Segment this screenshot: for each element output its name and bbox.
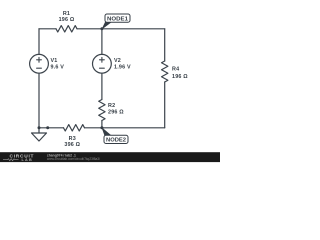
wire bottom-left bbox=[39, 127, 64, 129]
wire top-left to R1 bbox=[39, 28, 56, 30]
wire right column upper bbox=[164, 29, 166, 61]
resistor R2 bbox=[99, 100, 105, 121]
svg-text:R3: R3 bbox=[69, 136, 76, 142]
svg-text:1.96 V: 1.96 V bbox=[114, 65, 131, 71]
node NODE2 flag bbox=[101, 127, 128, 144]
junction dot node1 bbox=[100, 27, 103, 30]
svg-text:LAB: LAB bbox=[22, 158, 33, 162]
node NODE1 flag bbox=[101, 14, 130, 30]
wire left column lower bbox=[38, 73, 40, 128]
wire R1 to top-right corner bbox=[77, 28, 165, 30]
svg-text:NODE1: NODE1 bbox=[107, 16, 129, 22]
voltage source V2 bbox=[93, 54, 112, 73]
svg-text:296 Ω: 296 Ω bbox=[108, 109, 124, 115]
wire left column upper bbox=[38, 29, 40, 55]
resistor R1 bbox=[56, 26, 77, 32]
svg-text:196 Ω: 196 Ω bbox=[172, 74, 188, 80]
resistor R4 bbox=[162, 61, 168, 82]
svg-text:9.6 V: 9.6 V bbox=[51, 65, 65, 71]
resistor R3 bbox=[64, 125, 85, 131]
wire R2 to bottom bbox=[101, 121, 103, 128]
svg-text:V1: V1 bbox=[51, 58, 58, 64]
svg-text:V2: V2 bbox=[114, 58, 121, 64]
wire middle column upper bbox=[101, 29, 103, 55]
svg-text:396 Ω: 396 Ω bbox=[64, 142, 80, 148]
wire R3 to bottom-right corner bbox=[85, 127, 165, 129]
wire V2 to R2 bbox=[101, 73, 103, 99]
svg-text:R4: R4 bbox=[172, 67, 179, 73]
junction dot node2 bbox=[100, 126, 103, 129]
svg-text:R2: R2 bbox=[108, 103, 115, 109]
svg-text:R1: R1 bbox=[63, 11, 70, 17]
voltage source V1 bbox=[30, 54, 49, 73]
watermark logo zigzag bbox=[3, 159, 19, 161]
junction dot left-bottom bbox=[38, 126, 41, 129]
ground bbox=[38, 128, 40, 133]
svg-text:www.circuitlab.com/circuit/7kq: www.circuitlab.com/circuit/7kq23f8a3/ bbox=[47, 157, 100, 161]
svg-text:NODE2: NODE2 bbox=[106, 138, 126, 144]
watermark bar bbox=[0, 152, 220, 162]
svg-text:196 Ω: 196 Ω bbox=[59, 17, 75, 23]
junction dot ground wire bbox=[46, 126, 49, 129]
wire right column lower bbox=[164, 82, 166, 128]
